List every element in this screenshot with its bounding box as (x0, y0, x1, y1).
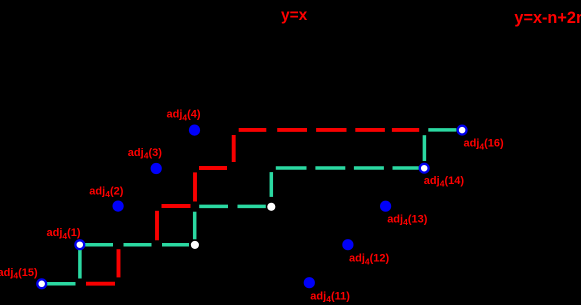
wire green H row2 x4-x6 dash2 (238, 205, 266, 209)
node ringed dot adj4(16) (458, 126, 467, 135)
wire green H row0 x0-x1 dash1 (47, 282, 76, 286)
wire red H row4 x5-x10 dash4 (355, 128, 385, 132)
wire red H row4 x5-x10 dash5 (392, 128, 419, 132)
wire green H row3 x6-x10 dash4 (393, 166, 419, 170)
node ringed dot adj4(14) (420, 164, 429, 173)
node blue dot adj4(12) (342, 239, 353, 250)
wire green V col1 row0-1 (78, 250, 82, 279)
wire red H row4 x5-x10 dash3 (316, 128, 346, 132)
wire red V col2 row0-1 (117, 249, 121, 277)
svg-text:adj4(15): adj4(15) (0, 267, 38, 281)
wire red H row4 x5-x10 dash2 (277, 128, 307, 132)
label adj4(14) (424, 175, 465, 189)
wire green H row4 x10-x11 dash1 (428, 128, 456, 132)
wire green H row3 x6-x10 dash3 (354, 166, 384, 170)
label adj4(15) (0, 267, 38, 281)
node white dot (6,2) (267, 203, 275, 211)
svg-text:y=x-n+2r: y=x-n+2r (514, 9, 581, 27)
wire green H row1 x1-x4 dash1 (84, 243, 113, 247)
wire green H row3 x6-x10 dash2 (315, 166, 345, 170)
label adj4(16) (464, 138, 505, 152)
wire red H row3 x4-x5 dash1 (199, 166, 227, 170)
node blue dot adj4(11) (304, 277, 315, 288)
red path hidden segment row1 under green (124, 243, 152, 246)
wire red V col5 row3-4 (232, 135, 236, 162)
svg-text:adj4(12): adj4(12) (349, 253, 390, 267)
wire green V col10 row3-4 (423, 135, 427, 161)
wire green V col4 row1-2 (193, 212, 197, 240)
svg-text:adj4(16): adj4(16) (464, 138, 505, 152)
wire red H row0 x1-x2 dash1 (86, 282, 115, 286)
wire green H row2 x4-x6 dash1 (199, 205, 228, 209)
node blue dot adj4(3) (151, 163, 162, 174)
label adj4(12) (349, 253, 390, 267)
wire green H row3 x6-x10 dash1 (276, 166, 307, 170)
wire red V col4 row2-3 (193, 172, 197, 201)
label adj4(2) (89, 185, 123, 199)
wire red H row2 x3-x4 dash1 (162, 204, 191, 208)
node blue dot adj4(4) (189, 125, 200, 136)
svg-text:adj4(13): adj4(13) (387, 213, 428, 227)
label adj4(13) (387, 213, 428, 227)
label adj4(4) (167, 109, 201, 123)
label y=x-n+2r (514, 9, 581, 27)
wire red V col3 row1-2 (155, 211, 159, 241)
node white dot (4,1) (191, 241, 199, 249)
svg-text:adj4(11): adj4(11) (310, 290, 350, 304)
label adj4(1) (47, 227, 81, 241)
wire green H row1 x1-x4 dash3 (162, 243, 189, 247)
node ringed dot adj4(15) (37, 279, 46, 288)
node blue dot adj4(13) (380, 201, 391, 212)
wire green V col6 row2-3 (270, 172, 274, 197)
wire red H row4 x5-x10 dash1 (239, 128, 267, 132)
label adj4(3) (128, 147, 162, 161)
label adj4(11) (310, 290, 350, 304)
label y=x (281, 7, 308, 24)
node ringed dot adj4(1) (75, 240, 84, 249)
node blue dot adj4(2) (113, 201, 124, 212)
svg-text:y=x: y=x (281, 7, 308, 24)
wire green H row1 x1-x4 dash2 (124, 243, 152, 247)
svg-text:adj4(14): adj4(14) (424, 175, 465, 189)
